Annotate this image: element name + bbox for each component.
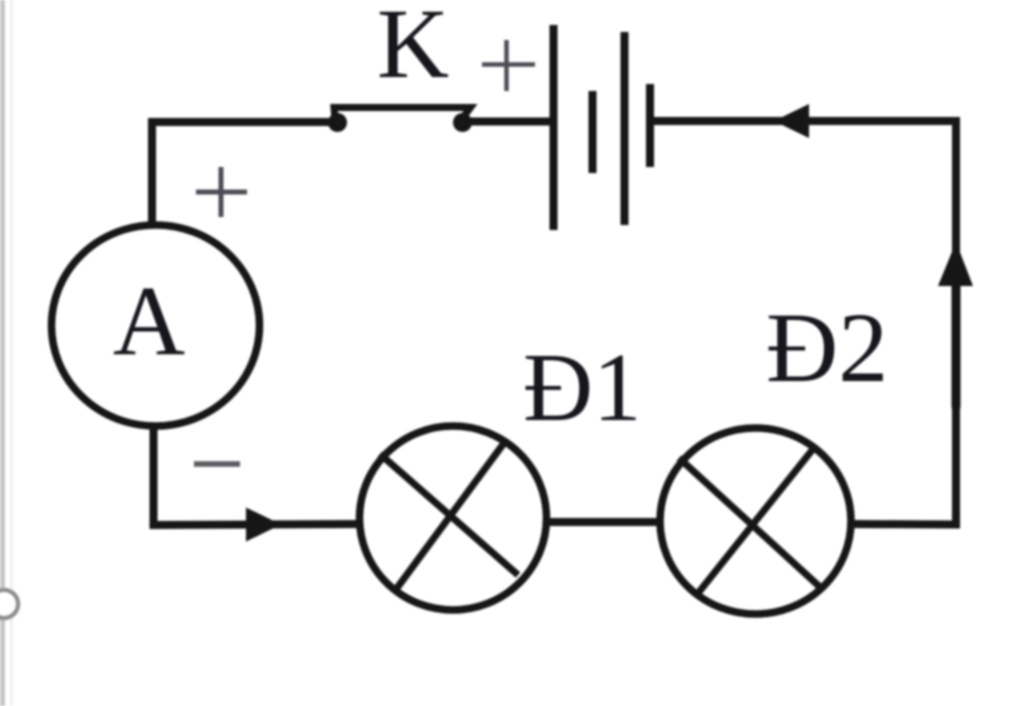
battery BT1 plate 4 (short, −) xyxy=(646,84,654,167)
wire battery to top-right corner and down right side xyxy=(650,121,956,525)
ammeter A1 xyxy=(52,225,260,426)
label − (ammeter negative terminal) xyxy=(194,461,240,467)
switch K left contact node xyxy=(328,113,347,132)
wire ammeter top to switch xyxy=(152,122,337,226)
wire switch to battery xyxy=(462,118,553,126)
label + (ammeter positive terminal) xyxy=(196,167,247,217)
battery BT1 plate 1 (long, +) xyxy=(550,25,558,230)
lamp Đ1 xyxy=(360,426,547,610)
current arrow (top wire, pointing left) xyxy=(774,104,809,138)
lamp Đ2 xyxy=(660,428,851,614)
switch K right contact node xyxy=(453,113,472,132)
svg-text:Đ1: Đ1 xyxy=(523,334,642,441)
svg-text:K: K xyxy=(377,0,449,99)
label + (battery positive terminal) xyxy=(482,40,535,91)
battery BT1 plate 3 (long, +) xyxy=(621,32,629,225)
wire between lamps xyxy=(546,518,661,526)
battery BT1 plate 2 (short, −) xyxy=(589,91,597,173)
current arrow (right wire, pointing up) xyxy=(938,242,973,286)
wire lamp Đ1 to ammeter bottom xyxy=(154,426,361,525)
current arrow (bottom wire, pointing right) xyxy=(246,508,281,542)
svg-text:Đ2: Đ2 xyxy=(766,292,888,403)
svg-text:A: A xyxy=(113,265,185,376)
current arrow tail (right wire) xyxy=(952,262,961,408)
switch K lever xyxy=(334,108,471,120)
